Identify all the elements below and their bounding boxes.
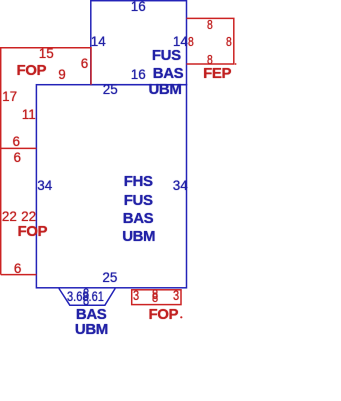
label 22 [21,210,36,224]
label 8 [152,288,158,302]
label UBM [149,82,182,97]
label 8 [226,35,232,48]
label FOP [149,307,179,322]
label 8 [188,35,194,48]
label 8 [83,287,89,301]
label 17 [2,90,17,104]
label 16 [131,68,146,82]
label FOP [18,224,48,239]
label BAS [123,211,153,226]
label FUS [124,193,153,208]
label 25 [102,271,117,285]
main die rect FHS/FUS/BAS/UBM [36,85,186,288]
label 11 [22,108,36,122]
label 9 [58,68,66,82]
label 6 [13,135,21,149]
label 8 [83,294,89,308]
label 3 [173,289,179,303]
label 14 [173,35,188,49]
label 16 [131,0,146,13]
label 22 [2,210,17,224]
label FEP [203,66,231,81]
label 34 [37,179,52,193]
FOP region bottom rect [132,290,181,305]
label 25 [103,83,118,97]
FOP region top-left outline [1,48,91,275]
upper die rect FUS/BAS [91,1,187,85]
FOP region bottom-left bottom line [1,274,37,276]
label FUS [152,48,181,63]
label 14 [91,35,106,49]
FOP region divider line [1,147,37,149]
dot after bottom FOP [180,316,182,318]
solder bump trapezoid [59,288,115,305]
label 3 [133,289,139,303]
label BAS [76,307,106,322]
label 8 [207,18,213,31]
label 3.68.61 [67,290,104,304]
label 6 [14,151,22,165]
label 6 [14,262,22,276]
label BAS [153,66,183,81]
label 6 [81,57,89,71]
label FHS [124,174,153,189]
dot after FEP [235,63,237,65]
label FOP [17,63,47,78]
label 15 [39,47,54,61]
label UBM [122,229,155,244]
label UBM [75,322,108,337]
label 8 [152,291,158,305]
label 34 [173,179,188,193]
FEP region outline [187,18,234,64]
label 8 [207,53,213,66]
